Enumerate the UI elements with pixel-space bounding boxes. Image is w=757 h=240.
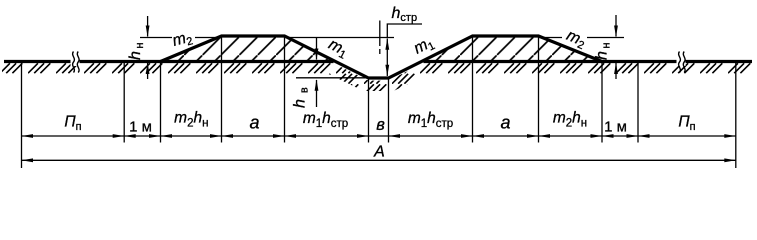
extension line channel bottom right corner: [388, 79, 390, 143]
extension line left mound top-left corner: [221, 37, 223, 143]
h_n right: top level extension line: [539, 37, 563, 39]
svg-text:а: а: [500, 113, 510, 133]
overall dimension line A: [22, 159, 736, 161]
extension line Pp/1m left: [123, 63, 125, 143]
profile polyline: left mound, channel, right mound: [161, 36, 603, 78]
right mound interior hatch: [422, 35, 602, 60]
extension line left mound top-right corner: [284, 37, 286, 143]
channel bottom level extension line (for h_v): [296, 77, 369, 79]
ground hatch band below ground line following channel profile: [2, 63, 752, 91]
chain arrowheads: [22, 134, 736, 138]
extension line 1m/Pp right: [637, 63, 639, 143]
right break symbol: [677, 52, 686, 73]
extension line channel bottom left corner: [368, 79, 370, 143]
label m2 right: [563, 27, 588, 52]
h_str dimension line with arrows: [385, 38, 389, 76]
h_n left: top level extension line: [140, 37, 172, 39]
chain dimension line: [22, 135, 736, 137]
svg-text:в: в: [376, 116, 385, 134]
extension line outer left: [21, 63, 23, 168]
ground line right segment: [424, 60, 753, 63]
svg-text:1 м: 1 м: [604, 119, 627, 136]
left break symbol: [71, 52, 80, 73]
svg-text:1 м: 1 м: [129, 119, 152, 136]
svg-text:а: а: [249, 113, 259, 133]
h_n left dimension arrows: [146, 16, 150, 79]
label m1 right: [411, 34, 437, 60]
h_str leader bracket: [387, 24, 422, 38]
top level extension line centre (for h_str): [285, 37, 395, 39]
h_n right dimension arrows: [614, 15, 618, 79]
ground line left segment: [4, 60, 334, 63]
extension line right mound top-left corner: [472, 37, 474, 143]
extension line outer right: [735, 63, 737, 168]
extension line right mound toe: [601, 63, 603, 143]
extension line right mound top-right corner: [538, 37, 540, 143]
label h_n right (rotated): [594, 43, 613, 60]
label m2 left: [171, 28, 195, 51]
label h_n left (rotated): [127, 43, 146, 60]
label h_v (rotated): [292, 87, 311, 108]
extension line 1m/m2hn left (mound toe): [160, 63, 162, 143]
channel axis line (dash-dot): [379, 21, 381, 55]
svg-text:А: А: [373, 144, 385, 161]
label m1 left: [325, 36, 351, 62]
left mound interior hatch: [161, 35, 336, 60]
h_v dimension arrows: [315, 38, 319, 107]
